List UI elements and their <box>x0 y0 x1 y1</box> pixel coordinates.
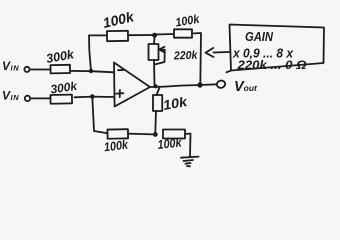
svg-text:220k: 220k <box>173 50 198 63</box>
svg-text:10k: 10k <box>162 94 190 113</box>
svg-text:100k: 100k <box>101 8 136 31</box>
svg-text:100k: 100k <box>174 12 201 30</box>
svg-text:100k: 100k <box>157 135 183 152</box>
svg-text:GAIN: GAIN <box>245 29 274 44</box>
svg-text:VIN: VIN <box>2 59 19 73</box>
svg-text:Vout: Vout <box>234 79 258 95</box>
svg-text:300k: 300k <box>45 47 76 66</box>
svg-text:VIN: VIN <box>2 89 19 103</box>
svg-text:100k: 100k <box>103 137 129 154</box>
svg-text:220k ... 0 Ω: 220k ... 0 Ω <box>236 58 307 72</box>
svg-text:300k: 300k <box>50 79 80 97</box>
